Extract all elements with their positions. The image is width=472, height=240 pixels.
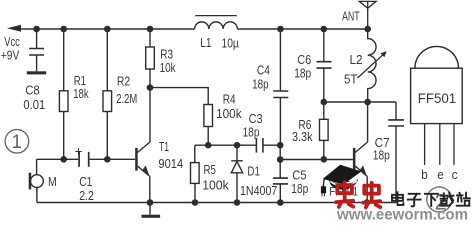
inductor L2: [368, 29, 376, 102]
wire top rail left: [20, 28, 195, 30]
svg-text:C1: C1: [79, 174, 92, 189]
capacitor C5: [279, 160, 281, 179]
svg-text:L2: L2: [350, 52, 363, 67]
svg-text:1N4007: 1N4007: [240, 183, 277, 198]
svg-text:R4: R4: [223, 92, 236, 107]
resistor R3: [149, 29, 151, 88]
figure marker 2 circle (watermarked): [427, 187, 452, 212]
arrow through L2 (variable): [358, 55, 384, 78]
package pins: [425, 124, 454, 165]
resistor R5: [191, 163, 200, 184]
transistor T2: [353, 148, 356, 171]
diode D1: [231, 145, 243, 202]
antenna ANT: [359, 1, 376, 29]
svg-text:www.eeworm.com: www.eeworm.com: [336, 207, 468, 223]
circle 1 marker: [5, 130, 29, 154]
svg-text:18p: 18p: [291, 181, 308, 196]
svg-text:ANT: ANT: [342, 8, 360, 23]
polarity plus C1: [75, 148, 81, 154]
capacitor C6: [323, 29, 325, 62]
svg-text:10k: 10k: [160, 60, 176, 75]
watermark red bug characters: [336, 182, 380, 207]
capacitor C4: [279, 29, 281, 91]
svg-text:18p: 18p: [373, 148, 390, 163]
wire bottom rail: [37, 202, 396, 204]
watermark CJK dianzi xiazaizhan: [392, 192, 470, 206]
svg-text:e: e: [437, 167, 444, 182]
svg-text:c: c: [452, 167, 458, 182]
svg-text:2.2: 2.2: [79, 188, 94, 203]
transistor T1: [135, 148, 138, 171]
svg-text:18p: 18p: [243, 124, 260, 139]
svg-text:R2: R2: [117, 74, 130, 89]
svg-text:D1: D1: [247, 163, 260, 178]
watermark graduation cap: [321, 165, 362, 197]
svg-text:1: 1: [12, 132, 23, 153]
wire top rail right: [237, 28, 367, 30]
capacitor C7: [395, 102, 397, 120]
svg-text:FF501: FF501: [418, 90, 457, 106]
resistor R6: [323, 102, 325, 159]
wire T2 base: [280, 159, 353, 161]
svg-text:C4: C4: [257, 63, 270, 78]
capacitor C1: [37, 158, 79, 160]
wire T1 base: [107, 158, 135, 160]
ground (C8): [27, 71, 46, 74]
wire collector node T2 row: [324, 101, 396, 103]
svg-text:9014: 9014: [158, 156, 183, 171]
svg-text:100k: 100k: [202, 178, 229, 193]
resistor R4: [204, 105, 213, 127]
svg-text:C8: C8: [25, 83, 40, 98]
wire node column C4/C3/C5: [279, 145, 281, 159]
junction dots bottom rail: [147, 199, 154, 206]
ground (emitter T1): [149, 203, 151, 215]
resistor R1: [63, 29, 65, 159]
svg-text:M: M: [48, 174, 57, 189]
svg-text:5T: 5T: [344, 72, 358, 87]
capacitor C8: [29, 29, 44, 71]
svg-text:2.2M: 2.2M: [116, 91, 137, 106]
svg-text:10µ: 10µ: [222, 35, 240, 50]
inductor L1: [195, 22, 238, 29]
microphone M: [36, 159, 38, 174]
svg-text:L1: L1: [200, 35, 211, 50]
junction dots top rail: [33, 26, 371, 206]
wire collector node to R4: [150, 88, 208, 105]
package FF501 outline: [411, 68, 463, 123]
capacitor C3: [256, 138, 263, 153]
svg-text:0.01: 0.01: [23, 97, 45, 112]
svg-text:b: b: [421, 167, 428, 182]
svg-text:18k: 18k: [73, 86, 89, 101]
svg-text:+9V: +9V: [1, 48, 20, 63]
svg-text:R5: R5: [204, 162, 216, 177]
Vcc arrow: [7, 25, 21, 32]
svg-text:18p: 18p: [252, 77, 269, 92]
resistor R2: [106, 29, 108, 159]
svg-text:18p: 18p: [294, 65, 311, 80]
svg-text:100k: 100k: [216, 106, 242, 121]
svg-text:3.3k: 3.3k: [292, 129, 313, 144]
junction dots mid: [147, 84, 154, 91]
wire base node T2 row: [195, 145, 256, 162]
svg-text:T1: T1: [159, 139, 169, 154]
